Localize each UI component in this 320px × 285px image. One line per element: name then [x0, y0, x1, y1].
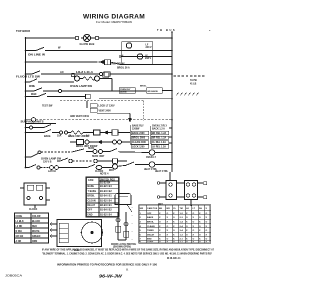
svg-text:RED: RED: [32, 226, 37, 228]
svg-text:CODE: CODE: [16, 216, 23, 218]
svg-text:U.: U.: [126, 270, 129, 272]
svg-text:BAKE RLY: BAKE RLY: [132, 125, 144, 128]
svg-text:IF ANY WIRE OF THIS APPLIANCE: IF ANY WIRE OF THIS APPLIANCE IS DAMAGED…: [42, 248, 215, 251]
svg-text:LOCK LT 120V: LOCK LT 120V: [99, 106, 115, 108]
svg-text:O: O: [159, 242, 161, 244]
svg-text:END: END: [88, 214, 93, 216]
svg-text:TA PB: TA PB: [190, 79, 197, 82]
svg-text:NOTE 4: NOTE 4: [100, 173, 109, 176]
svg-text:O: O: [167, 226, 169, 228]
svg-text:O: O: [199, 242, 201, 244]
svg-text:ORN: ORN: [32, 241, 37, 243]
svg-text:SWITCH POS: SWITCH POS: [100, 179, 115, 181]
svg-text:DOOR LATCH SWITCH: DOOR LATCH SWITCH: [111, 243, 136, 246]
svg-text:O: O: [206, 213, 208, 215]
svg-text:DELAY: DELAY: [147, 233, 155, 236]
svg-text:L2 RD: L2 RD: [16, 226, 23, 228]
svg-text:SURF: SURF: [88, 148, 95, 150]
svg-text:B1-B2 / B4: B1-B2 / B4: [100, 185, 112, 188]
svg-text:BLACK: BLACK: [32, 220, 40, 223]
svg-text:M 46.190 J.1: M 46.190 J.1: [167, 257, 181, 260]
svg-text:BNT: BNT: [158, 204, 163, 206]
svg-text:O: O: [193, 222, 195, 224]
svg-text:CAM POS: CAM POS: [147, 207, 158, 210]
svg-text:96-W-JW: 96-W-JW: [99, 274, 123, 279]
svg-text:O: O: [206, 222, 208, 224]
svg-text:HOT RELAY: HOT RELAY: [112, 63, 126, 66]
svg-text:CLEAN: CLEAN: [88, 199, 96, 202]
svg-text:AC: AC: [60, 70, 64, 74]
svg-text:L1 BLK: L1 BLK: [16, 221, 24, 223]
svg-text:OFF: OFF: [147, 213, 152, 215]
svg-text:CLEAN: CLEAN: [147, 225, 155, 228]
svg-text:O: O: [167, 239, 169, 241]
svg-text:2400W: 2400W: [120, 91, 127, 94]
svg-text:FLUOR LTS SW: FLUOR LTS SW: [16, 77, 41, 79]
svg-text:O: O: [186, 234, 188, 236]
svg-text:O: O: [193, 239, 195, 241]
svg-text:SURF UNIT: SURF UNIT: [92, 156, 105, 158]
svg-text:A OR: A OR: [16, 240, 22, 243]
svg-text:O: O: [167, 213, 169, 215]
svg-text:HEAT CTRL: HEAT CTRL: [155, 170, 169, 173]
svg-text:O: O: [193, 230, 195, 232]
svg-text:CL REL 1.2A: CL REL 1.2A: [152, 141, 166, 144]
svg-text:O: O: [186, 226, 188, 228]
svg-text:END: END: [147, 239, 152, 241]
svg-text:JOB05CA: JOB05CA: [5, 274, 22, 278]
svg-text:OVEN LT RLY: OVEN LT RLY: [152, 126, 167, 128]
svg-text:TOP BRKR: TOP BRKR: [16, 29, 30, 33]
svg-text:SURFACE UNITS: SURFACE UNITS: [21, 121, 45, 124]
svg-text:BR REL 1.2A: BR REL 1.2A: [152, 136, 167, 139]
svg-text:CAM: CAM: [88, 179, 93, 182]
svg-text:BACK 1.2 A: BACK 1.2 A: [152, 127, 165, 130]
svg-text:AND VENT CIR B: AND VENT CIR B: [70, 115, 89, 118]
svg-text:208 V: 208 V: [145, 58, 152, 60]
svg-text:LK: LK: [186, 208, 189, 210]
svg-text:BROIL: BROIL: [147, 222, 154, 224]
svg-text:BAKE: BAKE: [88, 185, 95, 188]
svg-text:ON LINE W: ON LINE W: [28, 54, 46, 56]
svg-text:WIRE: WIRE: [29, 86, 36, 88]
svg-text:W: W: [58, 46, 61, 50]
svg-text:O: O: [199, 226, 201, 228]
svg-text:O: O: [206, 239, 208, 241]
svg-text:BROIL 2600: BROIL 2600: [132, 137, 146, 139]
svg-text:240 V: 240 V: [146, 46, 153, 49]
svg-text:(SHOWN OPEN): (SHOWN OPEN): [113, 247, 131, 249]
svg-text:TEST SW: TEST SW: [42, 106, 53, 108]
svg-text:O: O: [199, 217, 201, 219]
svg-text:FA: FA: [199, 207, 202, 210]
svg-text:BR: BR: [167, 208, 171, 210]
svg-text:INFORMATION PRINTED TO PHOTOCO: INFORMATION PRINTED TO PHOTOCOPIED FOR S…: [57, 264, 158, 267]
svg-text:OVEN LAMP SW: OVEN LAMP SW: [70, 85, 93, 88]
svg-text:B2-B4 / B1: B2-B4 / B1: [100, 204, 112, 207]
svg-text:10A: 10A: [57, 135, 62, 138]
svg-text:For Model: MER5770BAW: For Model: MER5770BAW: [96, 20, 132, 24]
svg-text:O: O: [173, 217, 175, 219]
svg-text:BK: BK: [159, 208, 163, 210]
svg-text:DELAY: DELAY: [88, 204, 96, 207]
svg-text:BAKE: BAKE: [44, 135, 51, 138]
svg-text:OVEN LT: OVEN LT: [146, 157, 156, 159]
svg-text:O: O: [173, 230, 175, 232]
svg-text:B2-B4 / B1: B2-B4 / B1: [100, 195, 112, 198]
svg-text:B1-B4 / B2: B1-B4 / B2: [100, 190, 112, 193]
svg-text:TM: TM: [180, 208, 183, 210]
svg-text:O: O: [193, 213, 195, 215]
svg-text:MOT: MOT: [109, 170, 115, 172]
svg-text:B1-B4 / B2: B1-B4 / B2: [100, 209, 112, 212]
svg-text:O: O: [173, 242, 175, 244]
svg-text:TB BUS: TB BUS: [157, 28, 176, 32]
svg-text:HI-2 LO-1: HI-2 LO-1: [76, 72, 94, 74]
svg-text:N WH: N WH: [16, 231, 23, 233]
svg-text:BK REL 1.2A: BK REL 1.2A: [152, 132, 167, 135]
svg-text:GLOW BLB: GLOW BLB: [80, 42, 95, 46]
svg-text:O: O: [159, 234, 161, 236]
svg-text:T BAKE: T BAKE: [88, 190, 97, 193]
svg-text:MAN: MAN: [31, 93, 37, 96]
svg-text:LATCH: LATCH: [48, 170, 56, 173]
svg-text:OVEN LAMP SW: OVEN LAMP SW: [41, 158, 62, 161]
svg-text:B1 B2 B4: B1 B2 B4: [100, 182, 111, 185]
svg-text:BROIL: BROIL: [88, 196, 96, 198]
svg-text:GR GN: GR GN: [16, 236, 24, 238]
svg-text:BR 2400W: BR 2400W: [148, 90, 158, 93]
svg-text:OFF: OFF: [88, 210, 93, 212]
svg-text:1200W: 1200W: [132, 128, 140, 130]
svg-text:COLOR: COLOR: [32, 216, 41, 218]
svg-text:B1-B2 / B4: B1-B2 / B4: [100, 213, 112, 216]
svg-text:O: O: [186, 217, 188, 219]
svg-text:BAKE 2400: BAKE 2400: [132, 132, 145, 135]
svg-text:O: O: [186, 242, 188, 244]
svg-text:O: O: [199, 234, 201, 236]
svg-text:GREEN: GREEN: [32, 236, 41, 238]
svg-text:CLOCK: CLOCK: [29, 209, 38, 211]
svg-text:41 LB: 41 LB: [190, 82, 197, 85]
svg-text:O: O: [159, 222, 161, 224]
svg-text:WHITE: WHITE: [32, 231, 40, 233]
svg-text:TIMED: TIMED: [147, 230, 154, 232]
svg-text:VENT 240V: VENT 240V: [99, 109, 112, 112]
svg-text:"BLOWER" TERMINAL. 1. CABINET: "BLOWER" TERMINAL. 1. CABINET GND. 2. CO…: [42, 252, 213, 255]
svg-text:BAKE: BAKE: [147, 216, 154, 219]
svg-text:O: O: [206, 230, 208, 232]
svg-text:BROIL 36 A: BROIL 36 A: [117, 67, 130, 70]
svg-text:BROIL: BROIL: [140, 86, 147, 88]
svg-text:120 V B: 120 V B: [43, 162, 52, 164]
svg-text:CONT: CONT: [147, 242, 154, 244]
svg-text:CLEAN 2400: CLEAN 2400: [132, 141, 147, 144]
svg-text:B1-B2 / B4: B1-B2 / B4: [100, 199, 112, 202]
